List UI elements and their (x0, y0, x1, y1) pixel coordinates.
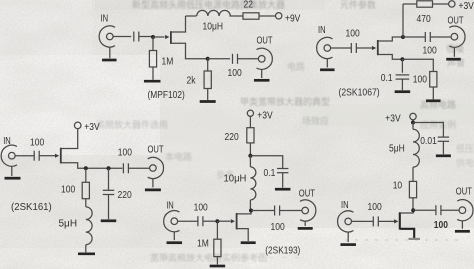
resistor R4 470 (417, 1, 433, 7)
svg-text:OUT: OUT (257, 34, 274, 45)
wire node to C9 (250, 156, 282, 169)
label 100 (C10) (194, 202, 208, 213)
wire node to gate (217, 220, 230, 222)
wire L2 to ground (85, 245, 87, 253)
label IN (circuit 1) (101, 12, 109, 23)
ground under J8 (298, 227, 313, 230)
transistor Q1 MPF102 (170, 31, 172, 44)
wire C6 to gate (39, 155, 55, 157)
svg-text:0.01: 0.01 (420, 135, 437, 146)
wire C10 to gate node (203, 220, 216, 222)
resistor R7 220 (247, 128, 254, 143)
capacitor C5 0.1 (396, 74, 410, 76)
label 100 (C13) (368, 201, 382, 212)
node source-C (107, 166, 111, 170)
svg-text:场效应: 场效应 (302, 115, 329, 126)
svg-text:22: 22 (244, 0, 253, 9)
node gate of Q1 (151, 35, 155, 39)
ground under R8 (210, 265, 226, 268)
ground under J3 (320, 68, 335, 71)
connector J3 IN jack (324, 45, 331, 52)
ground under J6 (145, 189, 161, 192)
label 2k (187, 75, 196, 86)
connector J1 IN jack (107, 33, 114, 40)
wire R5 to ground (432, 87, 434, 99)
node gate of Q4 (215, 219, 219, 223)
label device (2SK193) (265, 244, 300, 256)
wire C8 to ground (108, 195, 110, 220)
inductor L3 10uH (249, 156, 251, 167)
capacitor C10 input 100 (197, 216, 199, 226)
label IN (circuit 3) (3, 135, 11, 146)
svg-text:100: 100 (30, 137, 44, 148)
svg-text:(2SK161): (2SK161) (11, 201, 52, 212)
svg-text:5μH: 5μH (389, 143, 405, 154)
label device (2SK161) (11, 201, 52, 212)
svg-text:低压: 低压 (456, 143, 474, 154)
svg-text:OUT: OUT (448, 14, 465, 25)
ground under J5 (5, 177, 21, 180)
label OUT (circuit 4) (299, 187, 316, 198)
resistor R3 2k (207, 59, 209, 71)
svg-text:IN: IN (318, 24, 326, 35)
wire J9 to C13 (352, 220, 374, 222)
svg-text:5μH: 5μH (59, 219, 78, 230)
connector J2 OUT jack (258, 56, 265, 63)
wire C4 to J4 (430, 36, 451, 38)
connector J8 OUT jack (302, 207, 309, 214)
connector J9 IN jack (345, 218, 352, 225)
svg-text:OUT: OUT (456, 185, 473, 196)
inductor L2 5uH (86, 207, 92, 245)
label 100 (C11) (271, 222, 285, 233)
capacitor C7 output 100 (122, 163, 124, 173)
ground under J2 (254, 79, 270, 82)
ground under R1 (144, 80, 161, 83)
label 100 (C14) (434, 219, 448, 230)
wire C13 to gate (378, 220, 394, 222)
wire C2 to J2 (238, 58, 259, 60)
svg-text:元件参数: 元件参数 (340, 0, 376, 10)
transistor Q4 2SK193 (236, 213, 238, 229)
label 5uH (L4) (389, 143, 405, 154)
wire R4 to +3V (433, 3, 449, 5)
wire drain node up to rail (402, 4, 404, 37)
label 220 (118, 189, 132, 200)
svg-text:10: 10 (393, 180, 402, 191)
ground under J4 (446, 58, 461, 61)
wire node to C12 (413, 123, 443, 137)
svg-text:100: 100 (118, 147, 132, 158)
svg-text:0.1: 0.1 (264, 167, 276, 178)
inductor L4 5uH (412, 123, 414, 130)
svg-text:100: 100 (413, 74, 427, 85)
svg-text:电路: 电路 (287, 61, 305, 72)
svg-text:(2SK1067): (2SK1067) (339, 87, 380, 99)
svg-text:100: 100 (61, 184, 75, 195)
svg-text:1M: 1M (197, 238, 209, 249)
svg-text:OUT: OUT (148, 143, 165, 154)
svg-text:100: 100 (271, 222, 285, 233)
label 0.1 (C9) (264, 167, 276, 178)
svg-text:0.1: 0.1 (381, 72, 393, 83)
terminal +3V (circuit 3) (74, 122, 81, 129)
svg-text:+3V: +3V (257, 110, 273, 121)
resistor R1 1M (152, 37, 154, 51)
svg-text:IN: IN (341, 199, 349, 210)
svg-text:100: 100 (423, 45, 437, 56)
label 100 (C7) (118, 147, 132, 158)
wire +3V to R7 (249, 116, 251, 127)
wire L3 to drain node (249, 200, 251, 209)
wire C9 to ground (282, 173, 284, 188)
ground under Q5 source (faint) (409, 238, 421, 240)
wire L4 to R9 (412, 167, 414, 181)
wire J7 to C10 (178, 220, 198, 222)
svg-text:220: 220 (118, 189, 132, 200)
resistor R2 22 (243, 13, 259, 19)
label 100 (346, 28, 360, 39)
svg-text:100: 100 (228, 67, 242, 78)
svg-text:(2SK193): (2SK193) (265, 244, 300, 256)
ground under C5 (395, 90, 411, 93)
ground under C8 (101, 219, 117, 222)
svg-text:本电路: 本电路 (165, 151, 192, 162)
svg-text:100: 100 (346, 28, 360, 39)
label 220 (R7) (225, 131, 239, 142)
svg-text:供电: 供电 (456, 157, 474, 168)
svg-text:100: 100 (194, 202, 208, 213)
wire drain node to C4 (403, 36, 425, 38)
wire rail to R4 (403, 3, 417, 5)
label OUT (circuit 3) (148, 143, 165, 154)
node supply (circuit 5) (411, 121, 415, 125)
label 22 (244, 0, 253, 9)
ground under J7 (167, 241, 183, 244)
label OUT (circuit 2) (448, 14, 465, 25)
capacitor C11 output 100 (274, 206, 276, 216)
wire C12 to ground (442, 141, 444, 154)
svg-text:+3V: +3V (84, 121, 100, 132)
connector J10 OUT jack (459, 207, 466, 214)
terminal +3V (circuit 5) (410, 113, 416, 119)
wire +3V to node (412, 120, 414, 123)
transistor Q5 (399, 212, 401, 229)
terminal +9V (276, 13, 282, 19)
resistor R5 100 (430, 72, 437, 88)
transistor Q2 2SK1067 (377, 40, 379, 55)
wire C5 to ground (401, 79, 403, 90)
node decoupling (248, 154, 252, 158)
capacitor C1 input coupling (133, 32, 135, 42)
ground under L2 (78, 252, 95, 255)
capacitor C13 input 100 (372, 216, 374, 226)
label 100 (C6) (30, 137, 44, 148)
wire C3 to gate (356, 47, 372, 49)
svg-text:100: 100 (368, 201, 382, 212)
wire R7 to node (249, 143, 251, 156)
label 100 (228, 67, 242, 78)
capacitor C9 0.1 (277, 168, 288, 170)
node source of Q2 (400, 57, 404, 61)
label 100 (R6) (61, 184, 75, 195)
svg-text:应用实例: 应用实例 (420, 119, 456, 130)
capacitor C8 220 (103, 189, 114, 191)
wire drain node to C11 (251, 210, 275, 212)
wire drain node to C14 (413, 209, 436, 211)
svg-text:新型高频头用低压电源电路图集放大器: 新型高频头用低压电源电路图集放大器 (132, 0, 285, 10)
ground under C12 (436, 154, 451, 157)
svg-text:10μH: 10μH (203, 21, 223, 32)
transistor Q3 2SK161 (60, 148, 62, 164)
wire R2 to +9V (259, 15, 275, 17)
label 470 (417, 13, 431, 24)
capacitor C6 input 100 (33, 151, 35, 161)
capacitor C2 output 100 (232, 54, 234, 64)
resistor R6 100 (85, 168, 87, 182)
label OUT (circuit 5) (456, 185, 473, 196)
node drain of Q2 (401, 35, 405, 39)
ground under J9 (340, 243, 356, 246)
node source of Q1 (206, 57, 210, 61)
ground under R5 (426, 99, 441, 102)
wire source node to C2 (208, 58, 230, 60)
svg-text:470: 470 (417, 13, 431, 24)
capacitor C3 input 100 (350, 43, 352, 53)
svg-text:IN: IN (101, 12, 109, 23)
node source-R (84, 166, 88, 170)
ground under R3 (200, 100, 216, 103)
label 100 (below C4) (423, 45, 437, 56)
capacitor C12 0.01 (438, 136, 449, 138)
inductor L1 10uH (197, 10, 231, 16)
label OUT (circuit 1) (257, 34, 274, 45)
connector J7 IN jack (171, 218, 178, 225)
label 1M (162, 56, 174, 67)
wire source node to R5 (402, 59, 433, 71)
node drain of Q5 (411, 208, 415, 212)
terminal +3V (circuit 4) (247, 110, 253, 116)
terminal +3V (circuit 2) (449, 1, 455, 7)
wire C14 to J10 (441, 209, 459, 211)
svg-text:220: 220 (225, 131, 239, 142)
wire drain rail (186, 15, 197, 17)
ground under J10 (455, 230, 470, 233)
svg-text:+9V: +9V (285, 13, 301, 24)
capacitor C4 output 100 (424, 32, 426, 42)
wire J3 to C3 (331, 47, 352, 49)
svg-text:IN: IN (3, 135, 11, 146)
wire C1 to gate node (139, 36, 153, 38)
label 0.1 (381, 72, 393, 83)
capacitor C14 output 100 (435, 205, 437, 215)
wire C11 to J8 (280, 210, 302, 212)
svg-text:高频放大器件选用: 高频放大器件选用 (96, 119, 168, 130)
wire node to C8 (108, 168, 110, 190)
wire L1 to R2 (230, 15, 244, 17)
label IN (circuit 4) (166, 199, 174, 210)
wire source node down to C5 (401, 59, 403, 73)
label 10 (R9) (393, 180, 402, 191)
wire C7 to J6 (128, 167, 149, 169)
node drain of Q4 (249, 209, 253, 213)
connector J4 OUT jack (451, 33, 458, 40)
label 1M (R8) (197, 238, 209, 249)
label 100 (R5) (413, 74, 427, 85)
svg-text:2k: 2k (187, 75, 196, 86)
label device (2SK1067) (339, 87, 380, 99)
svg-text:OUT: OUT (299, 187, 316, 198)
label device (MPF102) (148, 89, 185, 101)
svg-text:+3V: +3V (385, 113, 401, 124)
label IN (circuit 5) (341, 199, 349, 210)
svg-text:甲类宽带放大器的典型: 甲类宽带放大器的典型 (240, 96, 330, 107)
svg-text:1M: 1M (162, 56, 174, 67)
label 0.01 (420, 135, 437, 146)
ground under J1 (102, 59, 117, 62)
label 5uH (59, 219, 78, 230)
wire J1 to C1 (113, 36, 131, 38)
wire R9 to drain node (412, 198, 414, 209)
wire node to gate with arrow (153, 36, 165, 38)
svg-text:10μH: 10μH (224, 173, 247, 184)
wire J5 to C6 (15, 155, 34, 157)
svg-text:100: 100 (434, 219, 448, 230)
label 10uH (L3) (224, 173, 247, 184)
resistor R9 10 (409, 181, 416, 197)
label IN (circuit 2) (318, 24, 326, 35)
svg-text:IN: IN (166, 199, 174, 210)
connector J5 IN jack (9, 152, 16, 159)
connector J6 OUT jack (150, 165, 157, 172)
svg-text:(MPF102): (MPF102) (148, 89, 185, 101)
svg-text:+3V: +3V (459, 1, 474, 12)
ground under C9 (275, 188, 291, 191)
ground under Q4 source (241, 241, 256, 244)
label 10uH (203, 21, 223, 32)
resistor R8 1M (216, 221, 218, 239)
